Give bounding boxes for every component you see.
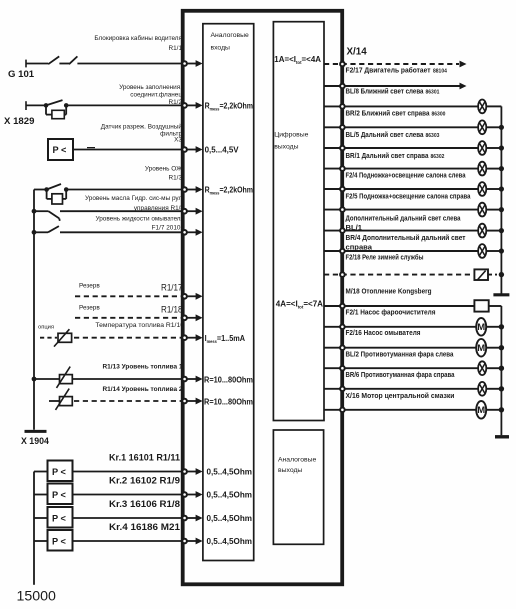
svg-text:Резерв: Резерв: [79, 283, 100, 290]
switch S5 washer fluid level: [34, 226, 59, 232]
thermistor RT3 fuel level 2: [49, 389, 72, 410]
svg-text:Уровень масла Гидр. сис-мы рул: Уровень масла Гидр. сис-мы рул.: [85, 195, 184, 202]
svg-text:Уровень заполнения,: Уровень заполнения,: [119, 84, 182, 91]
svg-text:BR/4 Дополнительный дальний: BR/4 Дополнительный дальний свет: [346, 233, 466, 242]
pressure sensor P4 Kr.3: [34, 507, 73, 528]
svg-text:X/14: X/14: [347, 46, 368, 57]
label BR/6: [346, 370, 456, 379]
svg-text:BL/2 Противотуманная фара слев: BL/2 Противотуманная фара слева: [346, 350, 455, 359]
node X 1829: [4, 116, 34, 127]
svg-text:P <: P <: [52, 490, 66, 500]
label row BR/4: [346, 233, 466, 252]
svg-text:управления R1/8: управления R1/8: [134, 205, 185, 212]
label R1/1: [94, 34, 182, 52]
wire row R1/8: [60, 208, 203, 215]
wire row R1/17 reserve: [75, 293, 203, 300]
label X/16: [346, 391, 455, 400]
svg-text:R1/18: R1/18: [161, 304, 183, 314]
node X/14: [347, 46, 368, 57]
lamp X/16: [324, 382, 504, 396]
label 0,5..4,5Ohm at 494.5: [207, 490, 253, 500]
wire row R1/2: [66, 102, 202, 109]
lamp E3 BR/1: [324, 141, 504, 155]
svg-text:F2/4 Подножка+освещение салона: F2/4 Подножка+освещение салона слева: [346, 171, 467, 180]
thermistor RT1 fuel temperature: [40, 329, 72, 346]
svg-text:P <: P <: [53, 145, 67, 155]
label R1/13: [103, 364, 183, 371]
controller U1 outer box: [183, 11, 343, 585]
wire row R1/9: [73, 491, 203, 498]
wire row R1/3: [66, 186, 202, 193]
wire right bus upper: [500, 106, 502, 293]
label R1/10: [95, 322, 184, 329]
svg-text:BR/1 Дальний свет справа: BR/1 Дальний свет справа: [346, 151, 430, 160]
wire row BL/8 low beam left: [324, 83, 467, 90]
label R1/3: [145, 166, 183, 182]
svg-text:R1/13 Уровень топлива 1: R1/13 Уровень топлива 1: [103, 364, 183, 371]
svg-text:M: M: [477, 322, 485, 333]
wire left bus: [32, 190, 37, 430]
svg-text:F2/5 Подножка+освещение салона: F2/5 Подножка+освещение салона справа: [346, 192, 472, 201]
svg-text:Kr.1 16101 R1/11: Kr.1 16101 R1/11: [109, 453, 180, 463]
svg-text:P <: P <: [52, 514, 66, 524]
svg-text:M: M: [477, 343, 485, 354]
svg-text:0,5..4,5Ohm: 0,5..4,5Ohm: [207, 467, 253, 477]
svg-text:0,5..4,5Ohm: 0,5..4,5Ohm: [207, 513, 253, 523]
lamp E8 F2/18: [324, 244, 504, 258]
wire row R1/13: [72, 376, 202, 383]
lamp E5 F2/5: [324, 182, 504, 196]
tick mark row X3: [87, 147, 95, 149]
ground X 1904: [21, 431, 49, 446]
wire right bus lower: [500, 306, 502, 435]
svg-text:0,5..4,5Ohm: 0,5..4,5Ohm: [207, 536, 253, 546]
svg-text:86302: 86302: [431, 154, 445, 160]
label 0,5..4,5Ohm at 518: [207, 513, 253, 523]
label F2/16: [346, 328, 421, 337]
label BL/8: [346, 86, 440, 95]
svg-text:X 1829: X 1829: [4, 116, 34, 127]
pressure sensor P1 air filter: [48, 139, 73, 160]
wire row R1/18 reserve: [75, 314, 203, 321]
svg-text:Уровень ОЖ: Уровень ОЖ: [145, 166, 182, 173]
pressure sensor P2 Kr.1: [34, 461, 73, 482]
lamp E6 BL/1: [324, 203, 504, 217]
svg-text:R=10...80Ohm: R=10...80Ohm: [204, 396, 253, 406]
wire row R1/14: [74, 398, 203, 405]
svg-text:входы: входы: [211, 45, 231, 52]
pressure sensor P5 Kr.4: [34, 530, 73, 551]
svg-text:BL/5 Дальний свет слева: BL/5 Дальний свет слева: [346, 130, 425, 139]
svg-text:86303: 86303: [426, 133, 440, 139]
net 15000: [17, 589, 57, 605]
label Kr.2: [109, 476, 180, 486]
svg-text:BL/8 Ближний свет слева: BL/8 Ближний свет слева: [346, 86, 425, 95]
label M/18 Kongsberg: [346, 286, 432, 295]
label Rmess 2.2kOhm (2): [205, 185, 253, 196]
svg-text:Kr.3 16106 R1/8: Kr.3 16106 R1/8: [109, 499, 180, 509]
label R1/2: [119, 84, 182, 106]
label row BR/2: [346, 108, 446, 117]
pressure sensor P3 Kr.2: [34, 484, 73, 505]
svg-text:R1/1: R1/1: [169, 45, 183, 52]
svg-text:X/16 Мотор центральной смазки: X/16 Мотор центральной смазки: [346, 391, 455, 400]
label 0,5...4,5V: [205, 145, 239, 155]
label BL/2: [346, 350, 455, 359]
svg-text:R1/17: R1/17: [161, 283, 183, 293]
svg-text:X 1904: X 1904: [21, 436, 49, 446]
lamp E2 BL/5: [324, 120, 504, 134]
wire row F1/7: [60, 229, 203, 236]
svg-text:R1/2: R1/2: [169, 99, 183, 106]
label R 10...80 Ohm (2): [204, 396, 253, 406]
svg-text:R1/14 Уровень топлива 2: R1/14 Уровень топлива 2: [103, 386, 183, 393]
label row F2/5: [346, 192, 472, 201]
svg-text:G 101: G 101: [8, 69, 35, 80]
svg-text:Kr.4 16186 M21: Kr.4 16186 M21: [109, 522, 180, 532]
svg-text:X3: X3: [174, 137, 182, 144]
label R1/8: [85, 195, 184, 212]
svg-text:Блокировка кабины водителя: Блокировка кабины водителя: [94, 34, 182, 42]
thermistor RT2 fuel level 1: [34, 367, 72, 388]
svg-text:Kr.2 16102 R1/9: Kr.2 16102 R1/9: [109, 476, 180, 486]
svg-text:0,5...4,5V: 0,5...4,5V: [205, 145, 239, 155]
svg-text:P <: P <: [52, 467, 66, 477]
svg-text:M/18 Отопление Kongsberg: M/18 Отопление Kongsberg: [346, 286, 432, 295]
wire row M21: [73, 538, 203, 545]
label Rmess 2.2kOhm (1): [205, 101, 253, 112]
wire row X3: [73, 146, 203, 153]
svg-text:R=10...80Ohm: R=10...80Ohm: [204, 374, 253, 384]
svg-text:выходы: выходы: [278, 467, 302, 474]
wire lower left bus: [33, 472, 35, 585]
label 4A tot 7A: [276, 299, 323, 310]
ground upper right: [493, 293, 509, 296]
svg-text:соединит.фланец: соединит.фланец: [130, 92, 182, 99]
wire row R1/11: [73, 468, 203, 475]
label X3: [101, 122, 183, 143]
svg-text:Температура топлива R1/10: Температура топлива R1/10: [95, 322, 184, 329]
label R1/17: [79, 283, 183, 293]
svg-text:F2/16 Насос омывателя: F2/16 Насос омывателя: [346, 328, 421, 337]
svg-text:Уровень жидкости омывателя: Уровень жидкости омывателя: [95, 215, 184, 222]
svg-text:Аналоговые: Аналоговые: [278, 456, 316, 463]
label Kr.4: [109, 522, 180, 532]
label Imess 1..5mA: [205, 333, 245, 344]
svg-text:Дополнительный дальний свет сл: Дополнительный дальний свет слева: [346, 214, 462, 223]
svg-text:15000: 15000: [17, 589, 57, 605]
switch S3 with resistor coolant level: [34, 184, 69, 204]
label F1/7 20101: [95, 215, 184, 231]
wire row R1/1: [77, 60, 202, 67]
label R 10...80 Ohm (1): [204, 374, 253, 384]
analog inputs block: [203, 24, 254, 561]
wire row R1/8: [73, 515, 203, 522]
label Kr.3: [109, 499, 180, 509]
svg-text:M: M: [477, 405, 485, 416]
label row BR/1: [346, 151, 445, 160]
svg-text:F2/1 Насос фароочистителя: F2/1 Насос фароочистителя: [346, 307, 436, 316]
svg-text:Аналоговые: Аналоговые: [211, 32, 249, 39]
label 0,5..4,5Ohm at 541: [207, 536, 253, 546]
switch S2 with resistor fill level: [26, 100, 69, 119]
relay K1 winter service: [324, 269, 504, 280]
svg-text:опция: опция: [38, 324, 54, 330]
lamp E7 BR/4: [324, 224, 504, 238]
label F2/17: [346, 65, 448, 74]
lamp BR/6: [324, 361, 504, 375]
label row BL/1: [346, 214, 462, 232]
switch S1 driver cab lock: [26, 56, 77, 67]
label opciya: [38, 324, 54, 330]
node G 101: [8, 69, 35, 80]
svg-text:BR/6 Противотуманная фара спра: BR/6 Противотуманная фара справа: [346, 370, 456, 379]
svg-text:выходы: выходы: [274, 144, 298, 151]
svg-text:Цифровые: Цифровые: [274, 131, 308, 138]
svg-text:Резерв: Резерв: [79, 304, 100, 311]
label row F2/4: [346, 171, 467, 180]
switch S4 steering oil level: [34, 211, 60, 221]
svg-text:BR/2 Ближний свет справа: BR/2 Ближний свет справа: [346, 108, 431, 117]
motor F2/16: [324, 318, 504, 336]
label 0,5..4,5Ohm at 471.5: [207, 467, 253, 477]
wire row R1/10: [74, 334, 203, 341]
label Kr.1: [109, 453, 180, 463]
svg-text:P <: P <: [52, 537, 66, 547]
label 1A tot 4A: [274, 54, 321, 65]
label row F2/18: [346, 253, 424, 262]
svg-text:R1/3: R1/3: [169, 174, 183, 181]
svg-text:86300: 86300: [432, 111, 446, 117]
svg-text:F2/18 Реле зимней службы: F2/18 Реле зимней службы: [346, 253, 424, 262]
analog outputs block: [273, 430, 323, 544]
ground lower right: [495, 435, 509, 438]
wire row F2/17 engine running: [324, 61, 467, 68]
lamp E4 F2/4: [324, 162, 504, 176]
label R1/18: [79, 304, 183, 314]
label row BL/5: [346, 130, 440, 139]
heater R Kongsberg: [324, 300, 501, 311]
svg-text:0,5..4,5Ohm: 0,5..4,5Ohm: [207, 490, 253, 500]
svg-text:88104: 88104: [433, 68, 447, 74]
motor M21: [324, 401, 504, 419]
svg-text:F1/7 20101: F1/7 20101: [152, 225, 185, 232]
motor BL/2: [324, 339, 504, 357]
label R1/14: [103, 386, 183, 393]
digital outputs block: [273, 22, 324, 421]
lamp E1 BR/2: [324, 100, 501, 114]
svg-text:Датчик разреж. Воздушный: Датчик разреж. Воздушный: [101, 122, 183, 130]
svg-text:86301: 86301: [426, 89, 440, 95]
label F2/1: [346, 307, 436, 316]
svg-text:F2/17 Двигатель работает: F2/17 Двигатель работает: [346, 65, 431, 74]
